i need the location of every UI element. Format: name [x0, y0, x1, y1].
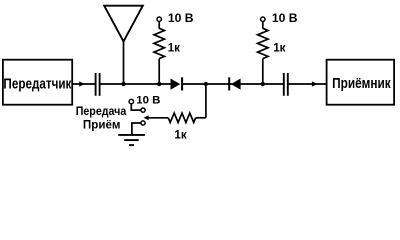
svg-text:Передача: Передача [76, 106, 127, 118]
svg-text:1к: 1к [168, 42, 180, 55]
svg-text:Приём: Приём [83, 118, 121, 131]
svg-text:Передатчик: Передатчик [3, 75, 71, 92]
svg-text:1к: 1к [174, 129, 186, 142]
svg-text:Приёмник: Приёмник [332, 75, 391, 91]
svg-text:10 В: 10 В [272, 11, 298, 25]
svg-text:1к: 1к [273, 42, 285, 55]
svg-text:10 В: 10 В [168, 11, 194, 25]
svg-text:10 В: 10 В [136, 95, 160, 107]
